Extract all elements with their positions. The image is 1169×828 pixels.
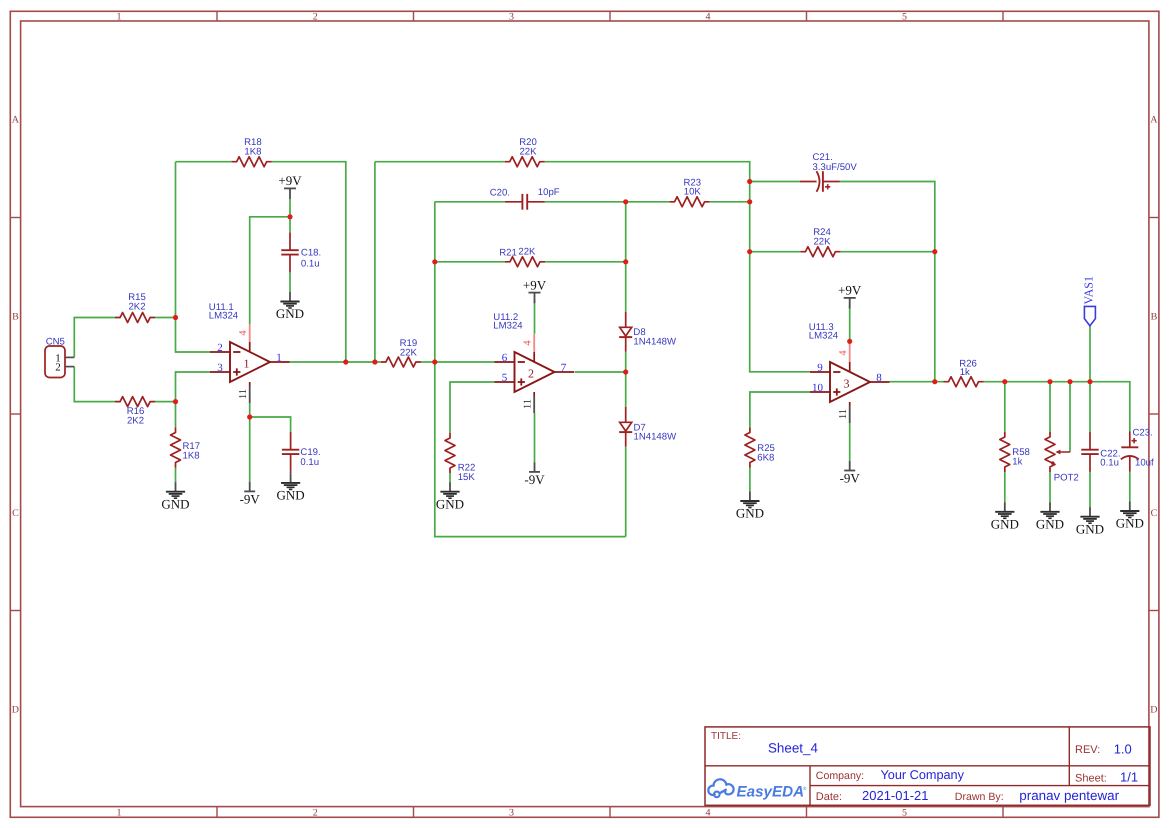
capacitor C23 polarized bbox=[1129, 432, 1131, 448]
wire bbox=[545, 201, 670, 203]
resistor R21 bbox=[505, 257, 545, 267]
junction R15-R18 node bbox=[173, 315, 178, 320]
resistor R18 bbox=[232, 157, 272, 167]
resistor R26 bbox=[944, 377, 984, 387]
frame column tick top bbox=[609, 11, 611, 21]
svg-text:pranav pentewar: pranav pentewar bbox=[1019, 788, 1119, 803]
junction R24 right node bbox=[932, 249, 937, 254]
svg-text:15K: 15K bbox=[458, 472, 476, 483]
frame column tick bottom bbox=[1002, 807, 1004, 818]
wire bbox=[374, 162, 376, 362]
svg-text:GND: GND bbox=[436, 496, 464, 511]
svg-text:2: 2 bbox=[217, 342, 223, 354]
wire bbox=[840, 182, 935, 382]
svg-text:Sheet:: Sheet: bbox=[1075, 772, 1107, 784]
ground (C23) bbox=[1129, 501, 1131, 511]
frame column tick top bbox=[806, 11, 808, 21]
wire bbox=[750, 251, 801, 253]
wire bbox=[176, 161, 232, 163]
junction R23 right node bbox=[747, 199, 752, 204]
ground (C18) bbox=[289, 292, 291, 302]
title block column divider logo bbox=[809, 766, 811, 806]
title block column divider rev bbox=[1068, 727, 1070, 786]
resistor R15 bbox=[115, 313, 155, 323]
svg-text:2K2: 2K2 bbox=[128, 302, 145, 313]
svg-text:Date:: Date: bbox=[816, 791, 842, 803]
op-amp U11.3 LM324 bbox=[830, 362, 870, 402]
svg-text:C23.: C23. bbox=[1133, 427, 1153, 438]
POT2 wiper end dot bbox=[1051, 461, 1054, 464]
CN5 pin 2 stub bbox=[65, 366, 74, 368]
svg-text:22K: 22K bbox=[519, 146, 537, 157]
svg-text:9: 9 bbox=[817, 362, 823, 374]
capacitor C21 polarized bbox=[800, 181, 817, 183]
svg-text:1: 1 bbox=[276, 352, 282, 364]
svg-text:VAS1: VAS1 bbox=[1081, 276, 1095, 304]
resistor R20 bbox=[505, 157, 545, 167]
potentiometer POT2 bbox=[1045, 432, 1055, 472]
svg-text:10K: 10K bbox=[684, 187, 702, 198]
svg-text:7: 7 bbox=[561, 362, 567, 374]
wire bbox=[175, 468, 177, 483]
power -9V (U11.3) bbox=[849, 461, 851, 471]
wire bbox=[450, 382, 495, 433]
frame column tick top bbox=[216, 11, 218, 21]
wire bbox=[849, 423, 851, 461]
svg-text:LM324: LM324 bbox=[809, 330, 839, 341]
junction POT2 wiper node bbox=[1067, 379, 1072, 384]
svg-text:GND: GND bbox=[991, 516, 1019, 531]
wire bbox=[984, 382, 1130, 432]
svg-text:22K: 22K bbox=[400, 348, 418, 359]
svg-text:0.1u: 0.1u bbox=[301, 258, 320, 269]
wire bbox=[749, 468, 751, 492]
frame row tick left bbox=[10, 610, 20, 612]
capacitor C22 bbox=[1089, 432, 1091, 450]
svg-text:11: 11 bbox=[838, 409, 849, 419]
svg-text:2: 2 bbox=[55, 362, 61, 374]
resistor R16 bbox=[115, 397, 155, 407]
frame row tick right bbox=[1149, 610, 1159, 612]
wire bbox=[176, 162, 211, 352]
wire bbox=[750, 392, 810, 428]
wire bbox=[545, 162, 810, 372]
ground (R22) bbox=[449, 482, 451, 492]
power -9V (U11.2) bbox=[534, 462, 536, 472]
svg-text:+9V: +9V bbox=[523, 277, 547, 292]
wire bbox=[435, 261, 505, 263]
resistor R58 bbox=[1000, 432, 1010, 472]
wire bbox=[1129, 472, 1131, 502]
wire bbox=[889, 381, 943, 383]
svg-text:6: 6 bbox=[502, 352, 508, 364]
junction POT2 top node bbox=[1047, 379, 1052, 384]
frame row tick left bbox=[10, 413, 20, 415]
wire bbox=[625, 447, 627, 537]
svg-text:POT2: POT2 bbox=[1054, 472, 1079, 483]
svg-text:1.0: 1.0 bbox=[1114, 742, 1132, 757]
svg-text:4: 4 bbox=[238, 330, 249, 336]
svg-text:1k: 1k bbox=[960, 367, 970, 378]
power -9V (U11.1) bbox=[249, 482, 251, 492]
svg-text:R21: R21 bbox=[499, 248, 517, 259]
wire bbox=[575, 371, 626, 373]
wire bbox=[849, 305, 851, 346]
svg-text:10pF: 10pF bbox=[538, 187, 560, 198]
wire bbox=[74, 318, 115, 358]
svg-text:C: C bbox=[12, 508, 19, 519]
wire bbox=[250, 417, 291, 432]
wire bbox=[435, 201, 505, 203]
junction pin6 R19 node bbox=[432, 359, 437, 364]
junction R16-R17 node bbox=[173, 399, 178, 404]
svg-text:10uf: 10uf bbox=[1135, 457, 1154, 468]
svg-text:1: 1 bbox=[244, 357, 250, 371]
svg-text:22K: 22K bbox=[813, 237, 831, 248]
wire bbox=[710, 201, 750, 203]
svg-text:1K8: 1K8 bbox=[183, 451, 200, 462]
frame column tick bottom bbox=[609, 807, 611, 818]
frame column tick bottom bbox=[413, 807, 415, 818]
wire bbox=[175, 402, 177, 428]
svg-text:10: 10 bbox=[812, 382, 824, 394]
wire bbox=[840, 251, 934, 253]
wire bbox=[1049, 382, 1051, 433]
wire bbox=[289, 217, 291, 233]
svg-text:3: 3 bbox=[509, 807, 514, 818]
svg-text:GND: GND bbox=[736, 506, 764, 521]
wire bbox=[289, 272, 291, 292]
svg-text:8: 8 bbox=[876, 372, 882, 384]
svg-text:1k: 1k bbox=[1012, 457, 1022, 468]
svg-text:Your Company: Your Company bbox=[881, 768, 965, 782]
wire bbox=[545, 261, 626, 263]
resistor R19 bbox=[381, 357, 421, 367]
wire bbox=[1004, 382, 1006, 432]
svg-text:5: 5 bbox=[902, 11, 907, 22]
wire bbox=[289, 199, 291, 217]
svg-text:22K: 22K bbox=[518, 247, 536, 258]
wire bbox=[250, 217, 290, 324]
resistor R22 bbox=[445, 433, 455, 473]
ground (R58) bbox=[1004, 502, 1006, 512]
svg-text:C: C bbox=[1151, 508, 1158, 519]
diode D7 bbox=[625, 407, 627, 422]
svg-text:4: 4 bbox=[706, 807, 711, 818]
svg-text:CN5: CN5 bbox=[46, 336, 65, 347]
svg-text:Drawn By:: Drawn By: bbox=[955, 791, 1004, 803]
junction U11.3 out node bbox=[932, 379, 937, 384]
junction VAS1 C22 node bbox=[1087, 379, 1092, 384]
svg-text:B: B bbox=[12, 311, 19, 322]
svg-text:0.1u: 0.1u bbox=[300, 457, 319, 468]
net flag VAS1 bbox=[1084, 306, 1095, 325]
wire bbox=[375, 161, 505, 163]
svg-text:5: 5 bbox=[902, 807, 907, 818]
svg-text:GND: GND bbox=[1036, 516, 1064, 531]
wire bbox=[435, 202, 626, 537]
ground (R17) bbox=[175, 482, 177, 492]
junction R24 left node bbox=[747, 249, 752, 254]
wire bbox=[289, 361, 381, 363]
svg-text:-9V: -9V bbox=[524, 472, 545, 487]
wire bbox=[1089, 472, 1091, 507]
svg-text:+9V: +9V bbox=[838, 283, 862, 298]
ground (R25) bbox=[749, 491, 751, 501]
frame column tick top bbox=[413, 11, 415, 21]
ground (C19) bbox=[290, 472, 292, 473]
title block border bbox=[705, 727, 1150, 805]
svg-text:LM324: LM324 bbox=[209, 310, 239, 321]
svg-text:GND: GND bbox=[276, 306, 304, 321]
wire bbox=[272, 162, 346, 362]
ground (C22) bbox=[1089, 507, 1091, 517]
capacitor C19 bbox=[290, 432, 292, 450]
svg-text:0.1u: 0.1u bbox=[1100, 457, 1119, 468]
svg-text:Sheet_4: Sheet_4 bbox=[768, 740, 818, 755]
svg-text:4: 4 bbox=[706, 11, 711, 22]
title block row divider 1 bbox=[705, 765, 1150, 767]
svg-text:1K8: 1K8 bbox=[244, 146, 261, 157]
junction R21 left node bbox=[432, 259, 437, 264]
capacitor C20 bbox=[505, 201, 523, 203]
svg-text:2: 2 bbox=[313, 807, 318, 818]
connector CN5 bbox=[45, 346, 65, 378]
junction U11.1 out R18 node bbox=[343, 359, 348, 364]
svg-text:1/1: 1/1 bbox=[1120, 770, 1138, 785]
svg-text:A: A bbox=[1150, 114, 1158, 125]
diode D8 bbox=[625, 312, 627, 327]
resistor R24 bbox=[800, 247, 840, 257]
junction U11.3 +9V pin4 node bbox=[847, 339, 852, 344]
svg-text:GND: GND bbox=[1076, 521, 1104, 536]
wire bbox=[176, 372, 211, 402]
svg-text:1: 1 bbox=[117, 11, 122, 22]
junction C20-R23 node bbox=[623, 199, 628, 204]
svg-text:4: 4 bbox=[838, 350, 849, 356]
svg-text:-9V: -9V bbox=[840, 471, 861, 486]
svg-text:®: ® bbox=[803, 786, 807, 791]
svg-text:1N4148W: 1N4148W bbox=[633, 337, 677, 348]
svg-text:D: D bbox=[12, 704, 19, 715]
svg-text:REV:: REV: bbox=[1075, 744, 1100, 756]
junction C21 left node bbox=[747, 179, 752, 184]
wire bbox=[1004, 472, 1006, 502]
wire bbox=[449, 473, 451, 482]
wire bbox=[750, 181, 800, 183]
svg-text:2K2: 2K2 bbox=[127, 415, 144, 426]
frame column tick bottom bbox=[216, 807, 218, 818]
svg-text:-9V: -9V bbox=[240, 491, 261, 506]
wire bbox=[625, 352, 627, 407]
svg-text:1N4148W: 1N4148W bbox=[634, 432, 678, 443]
resistor R17 bbox=[171, 428, 181, 468]
junction R58 node bbox=[1002, 379, 1007, 384]
frame column tick bottom bbox=[806, 807, 808, 818]
svg-text:11: 11 bbox=[522, 399, 533, 409]
frame column tick top bbox=[1002, 11, 1004, 21]
svg-text:3: 3 bbox=[509, 11, 514, 22]
svg-text:GND: GND bbox=[1116, 516, 1144, 531]
wire bbox=[435, 361, 495, 363]
svg-text:Company:: Company: bbox=[816, 770, 864, 782]
svg-text:GND: GND bbox=[161, 496, 189, 511]
wire bbox=[155, 401, 176, 403]
op-amp U11.1 LM324 bbox=[230, 342, 270, 382]
resistor R25 bbox=[745, 428, 755, 468]
wire bbox=[534, 413, 536, 462]
svg-text:2: 2 bbox=[313, 11, 318, 22]
wire bbox=[1089, 382, 1091, 432]
wire bbox=[1089, 326, 1091, 382]
svg-text:D: D bbox=[1150, 704, 1157, 715]
svg-text:11: 11 bbox=[238, 389, 249, 399]
svg-text:C18.: C18. bbox=[301, 247, 321, 258]
svg-text:TITLE:: TITLE: bbox=[711, 731, 741, 742]
junction +9V C18 node bbox=[287, 214, 292, 219]
svg-text:A: A bbox=[12, 114, 20, 125]
svg-text:2: 2 bbox=[528, 367, 534, 381]
wire bbox=[1049, 471, 1051, 502]
svg-text:5: 5 bbox=[502, 372, 508, 384]
wire bbox=[249, 403, 251, 482]
svg-text:6K8: 6K8 bbox=[757, 453, 774, 464]
resistor R23 bbox=[670, 197, 710, 207]
junction U11.1 out R20 node bbox=[372, 359, 377, 364]
svg-text:2021-01-21: 2021-01-21 bbox=[862, 788, 929, 803]
capacitor C18 bbox=[289, 232, 291, 250]
svg-text:LM324: LM324 bbox=[493, 320, 523, 331]
junction U11.2 out node bbox=[623, 369, 628, 374]
ground (POT2) bbox=[1049, 502, 1051, 512]
wire bbox=[155, 317, 176, 319]
frame row tick right bbox=[1149, 217, 1159, 219]
svg-text:+9V: +9V bbox=[278, 173, 302, 188]
junction pin11 -9V C19 node bbox=[247, 414, 252, 419]
wire bbox=[534, 299, 536, 334]
frame row tick right bbox=[1149, 413, 1159, 415]
svg-text:EasyEDA: EasyEDA bbox=[737, 784, 805, 801]
CN5 pin 1 stub bbox=[65, 356, 74, 358]
svg-text:3: 3 bbox=[844, 377, 850, 391]
op-amp U11.2 LM324 bbox=[515, 352, 555, 392]
wire bbox=[625, 202, 627, 312]
svg-text:3.3uF/50V: 3.3uF/50V bbox=[813, 162, 858, 173]
frame row tick left bbox=[10, 217, 20, 219]
wire bbox=[421, 361, 435, 363]
svg-text:C20.: C20. bbox=[490, 187, 510, 198]
title block row divider 2 bbox=[810, 785, 1150, 787]
wire bbox=[1069, 382, 1071, 453]
svg-text:3: 3 bbox=[217, 362, 223, 374]
svg-text:1: 1 bbox=[117, 807, 122, 818]
junction R21 right node bbox=[623, 259, 628, 264]
svg-text:4: 4 bbox=[523, 340, 534, 346]
svg-text:B: B bbox=[1151, 311, 1158, 322]
EasyEDA logo cloud bbox=[708, 779, 733, 795]
svg-text:GND: GND bbox=[277, 488, 305, 503]
wire bbox=[74, 367, 115, 402]
